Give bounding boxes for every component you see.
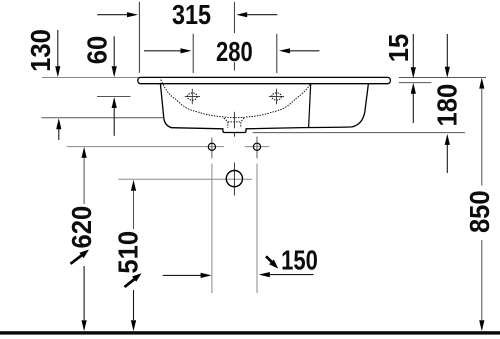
extension line basin-bottom left [42, 117, 164, 119]
washbasin body outline [160, 84, 368, 129]
washbasin rim [138, 77, 391, 83]
dimension 15 [383, 34, 416, 123]
dimension 130 [25, 29, 61, 140]
extension line 315 left [138, 2, 140, 73]
extension line 280 left [192, 34, 194, 73]
dimension 150 [163, 245, 318, 278]
extension line rim-bottom right [399, 82, 432, 84]
faucet hole right [269, 89, 284, 105]
floor line [0, 331, 500, 334]
drain funnel hidden [224, 118, 244, 128]
extension line 280 right [276, 34, 278, 73]
extension line fixing-holes level [67, 146, 224, 148]
dimension 850 [464, 78, 495, 332]
drain flange [223, 128, 246, 132]
extension line faucet-hole level left [97, 96, 131, 98]
drain pipe circle [226, 171, 242, 187]
basin bowl right edge [309, 84, 311, 128]
dimension 180 [432, 34, 463, 173]
svg-text:850: 850 [464, 190, 495, 233]
dimension 315 [97, 0, 277, 30]
centerline fixing hole right [256, 137, 258, 294]
svg-text:60: 60 [81, 36, 112, 64]
dimension 60 [81, 36, 116, 136]
dimension 510 [112, 180, 143, 332]
faucet hole left [185, 89, 200, 105]
svg-text:15: 15 [383, 34, 414, 63]
svg-text:315: 315 [172, 0, 211, 30]
extension line rim-top left [42, 77, 140, 79]
svg-text:180: 180 [432, 84, 463, 127]
centerline drain axis [233, 2, 235, 196]
centerline fixing hole left [211, 138, 213, 294]
svg-text:150: 150 [281, 245, 318, 276]
svg-text:280: 280 [216, 37, 253, 68]
svg-text:130: 130 [25, 29, 56, 72]
fixing hole right [253, 143, 260, 150]
dimension 280 [144, 37, 319, 68]
extension line fixing-hole-2 crosshair [245, 146, 270, 148]
svg-text:510: 510 [112, 231, 143, 274]
extension line drain-circle level [118, 178, 252, 180]
basin interior hidden curve [161, 80, 311, 118]
extension line rim-top right [399, 77, 486, 79]
dimension 620 [66, 147, 97, 331]
svg-text:620: 620 [66, 206, 97, 249]
fixing hole left [208, 143, 215, 150]
extension line sink-bottom right [253, 132, 465, 134]
